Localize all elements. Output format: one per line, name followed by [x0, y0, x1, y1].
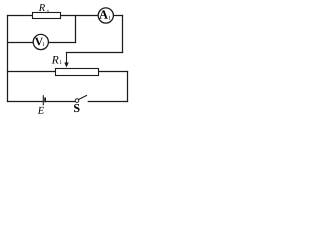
- ammeter A1: [98, 8, 113, 23]
- wire slider horizontal: [67, 52, 123, 54]
- wire right vertical lower: [127, 72, 129, 102]
- wire rheostat row right: [99, 71, 128, 73]
- svg-text:A: A: [99, 8, 108, 22]
- wire bottom left to battery: [8, 101, 43, 103]
- resistor Rx: [33, 13, 61, 19]
- svg-text:1: 1: [42, 42, 45, 48]
- wire voltmeter right: [48, 42, 75, 44]
- wire voltmeter left: [8, 42, 34, 44]
- svg-text:1: 1: [108, 16, 111, 22]
- wire top left segment: [8, 15, 33, 17]
- label Rx: [38, 3, 50, 14]
- svg-text:S: S: [73, 101, 80, 115]
- rheostat R1 slider arrow: [64, 53, 68, 68]
- wire ammeter to right corner: [113, 15, 122, 17]
- voltmeter V1: [33, 34, 48, 49]
- wire vertical voltmeter tap to top node: [75, 16, 77, 43]
- label E: [37, 106, 45, 117]
- battery E: [43, 95, 45, 105]
- label S: [73, 101, 80, 115]
- wire top middle segment: [61, 15, 99, 17]
- wire battery to switch: [46, 101, 75, 103]
- svg-text:R: R: [51, 54, 59, 66]
- wire rheostat row left: [8, 71, 56, 73]
- svg-text:1: 1: [59, 60, 62, 66]
- svg-text:R: R: [38, 3, 46, 14]
- svg-text:E: E: [37, 106, 45, 117]
- label R1: [51, 54, 63, 66]
- switch S: [75, 95, 87, 102]
- wire left vertical: [7, 16, 9, 102]
- rheostat R1 box: [56, 69, 99, 76]
- wire switch to bottom right: [88, 101, 127, 103]
- wire right vertical upper: [122, 16, 124, 53]
